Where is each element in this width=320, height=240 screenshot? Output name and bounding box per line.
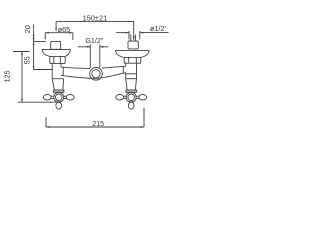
ø65 right extension line xyxy=(72,33,74,40)
left funnel xyxy=(52,79,63,90)
ø65 right arrow xyxy=(69,32,73,34)
125 bottom extension line xyxy=(18,101,56,103)
bridge arm top edge right xyxy=(102,66,126,68)
spout port inner circle xyxy=(92,70,100,78)
right handle bottom neck xyxy=(130,101,132,102)
bridge arm top edge left xyxy=(61,67,90,68)
svg-text:125: 125 xyxy=(3,70,12,82)
215 right riser xyxy=(143,108,145,127)
bridge arm bottom edge xyxy=(61,73,126,79)
ø65 left arrow xyxy=(45,32,49,34)
spout port outer circle xyxy=(90,68,103,81)
extension line arm level xyxy=(34,69,53,71)
left hex nut facets xyxy=(54,56,61,63)
right inlet pipe xyxy=(131,35,136,42)
svg-text:150±21: 150±21 xyxy=(83,13,108,22)
dimension G1/2 left segment xyxy=(78,46,90,48)
left handle boss outer xyxy=(54,92,64,102)
215 left riser xyxy=(45,117,47,127)
dimension 150±21 right arrow xyxy=(133,36,135,40)
left escutcheon bowl xyxy=(42,50,71,57)
left body joint line xyxy=(52,78,63,80)
right handle right neck xyxy=(136,96,139,98)
svg-text:ø1/2': ø1/2' xyxy=(150,24,167,33)
right handle bottom lobe xyxy=(128,102,134,109)
left handle bottom neck xyxy=(58,101,60,102)
left valve collar xyxy=(54,90,64,92)
right union square cap xyxy=(128,41,138,49)
left handle left neck xyxy=(51,96,54,98)
G1/2 right arrow xyxy=(100,46,104,48)
125 bottom arrow xyxy=(21,99,23,103)
125 top extension line xyxy=(13,51,30,53)
G1/2 left arrow xyxy=(87,46,91,48)
left hex nut xyxy=(50,56,66,63)
20 bottom arrow xyxy=(33,38,35,42)
215 right arrow xyxy=(141,126,145,128)
right hex nut xyxy=(124,57,141,63)
ø65 left extension line xyxy=(44,33,46,40)
left handle left lobe xyxy=(43,95,51,101)
svg-text:55: 55 xyxy=(22,56,31,64)
G1/2 left extension line xyxy=(89,45,91,69)
right funnel xyxy=(126,79,137,90)
right handle left lobe xyxy=(116,95,124,101)
left handle right lobe xyxy=(66,95,74,101)
215 left arrow xyxy=(46,126,50,128)
125 top arrow xyxy=(21,52,23,56)
dimension 150±21 left arrow xyxy=(55,28,57,31)
dimension ø65 line xyxy=(45,32,73,34)
left handle right neck xyxy=(64,96,67,98)
right valve collar xyxy=(126,90,136,92)
dimension 215 line xyxy=(46,126,144,128)
right handle boss outer xyxy=(126,92,136,102)
left union square cap xyxy=(51,41,61,49)
dimension 55 line xyxy=(33,41,35,69)
G1/2 right extension line xyxy=(99,45,101,69)
right handle left neck xyxy=(124,96,127,98)
arm joint line left xyxy=(62,67,64,75)
svg-text:ø65: ø65 xyxy=(58,25,70,34)
left body tube xyxy=(52,63,61,78)
dimension ø1/2 leader left segment xyxy=(116,32,129,34)
right body joint line xyxy=(126,78,137,80)
right body tube xyxy=(126,63,137,78)
left handle bottom lobe xyxy=(56,102,62,109)
dimension 125 line xyxy=(21,52,23,103)
20 top arrow xyxy=(33,33,35,37)
55 top arrow xyxy=(33,41,35,45)
dimension 20 line xyxy=(33,25,35,42)
ø1/2 right arrow xyxy=(140,32,144,34)
svg-text:G1/2": G1/2" xyxy=(85,36,104,45)
right escutcheon bowl xyxy=(115,50,149,57)
svg-text:215: 215 xyxy=(92,120,104,128)
ø1/2 left arrow xyxy=(126,32,130,34)
ø1/2 left extension line xyxy=(128,31,130,40)
ø1/2 leader right segment xyxy=(140,32,169,34)
dimension G1/2 right segment xyxy=(100,46,109,48)
right handle right lobe xyxy=(139,95,147,101)
arm joint line right xyxy=(122,66,124,73)
svg-text:20: 20 xyxy=(23,25,32,33)
55 bottom arrow xyxy=(33,66,35,70)
right handle boss inner xyxy=(128,94,135,101)
dimension 150±21 line xyxy=(56,22,134,40)
right hex nut facets xyxy=(129,57,137,63)
left handle boss inner xyxy=(55,94,62,101)
extension line cap top xyxy=(34,40,46,42)
ø1/2 right extension line xyxy=(139,31,141,40)
right body joint ring xyxy=(126,73,137,75)
